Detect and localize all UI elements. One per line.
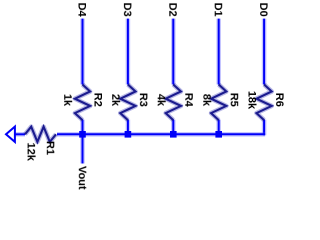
svg-text:R3: R3: [137, 93, 149, 107]
junction: node Vout at D4/bus: [79, 131, 86, 138]
svg-text:R4: R4: [183, 93, 195, 108]
svg-text:1k: 1k: [61, 94, 73, 107]
resistor R5: [211, 85, 226, 121]
svg-text:D4: D4: [75, 3, 87, 18]
junction: D1/bus: [215, 131, 222, 138]
svg-text:R2: R2: [92, 93, 104, 107]
wire: D2 vertical top: [171, 19, 176, 85]
resistor R2: [75, 85, 90, 121]
svg-text:12k: 12k: [25, 143, 37, 162]
wire: D0 vertical top: [262, 19, 267, 85]
wire: D0 bottom to bus corner: [262, 120, 267, 136]
svg-text:R6: R6: [273, 93, 285, 107]
wire: D1 bottom to bus: [216, 120, 221, 135]
svg-text:R5: R5: [228, 93, 240, 107]
wire: D3 vertical top: [126, 19, 131, 85]
wire: terminal to R1: [15, 132, 25, 137]
svg-text:R1: R1: [44, 141, 56, 155]
wire: D3 bottom to bus: [126, 120, 131, 135]
junction: D2/bus: [170, 131, 177, 138]
svg-text:2k: 2k: [109, 94, 121, 107]
wire: horizontal bus: [57, 132, 265, 137]
svg-text:D1: D1: [212, 3, 224, 17]
wire: Vout stub: [80, 134, 85, 163]
svg-text:D0: D0: [257, 3, 269, 17]
wire: D2 bottom to bus: [171, 120, 176, 135]
svg-text:Vout: Vout: [76, 166, 88, 190]
resistor R6: [257, 85, 272, 121]
junction: D3/bus: [125, 131, 132, 138]
resistor R4: [166, 85, 181, 121]
svg-text:4k: 4k: [155, 94, 167, 107]
wire: D4 vertical top: [80, 19, 85, 85]
wire: D4 bottom to bus: [80, 120, 85, 135]
wire: D1 vertical top: [216, 19, 221, 85]
svg-text:D2: D2: [166, 3, 178, 17]
resistor R1: [25, 127, 56, 142]
resistor R3: [120, 85, 135, 121]
svg-text:18k: 18k: [246, 91, 258, 110]
terminal arrow (output port): [6, 127, 15, 142]
svg-text:8k: 8k: [200, 94, 212, 107]
svg-text:D3: D3: [121, 3, 133, 17]
